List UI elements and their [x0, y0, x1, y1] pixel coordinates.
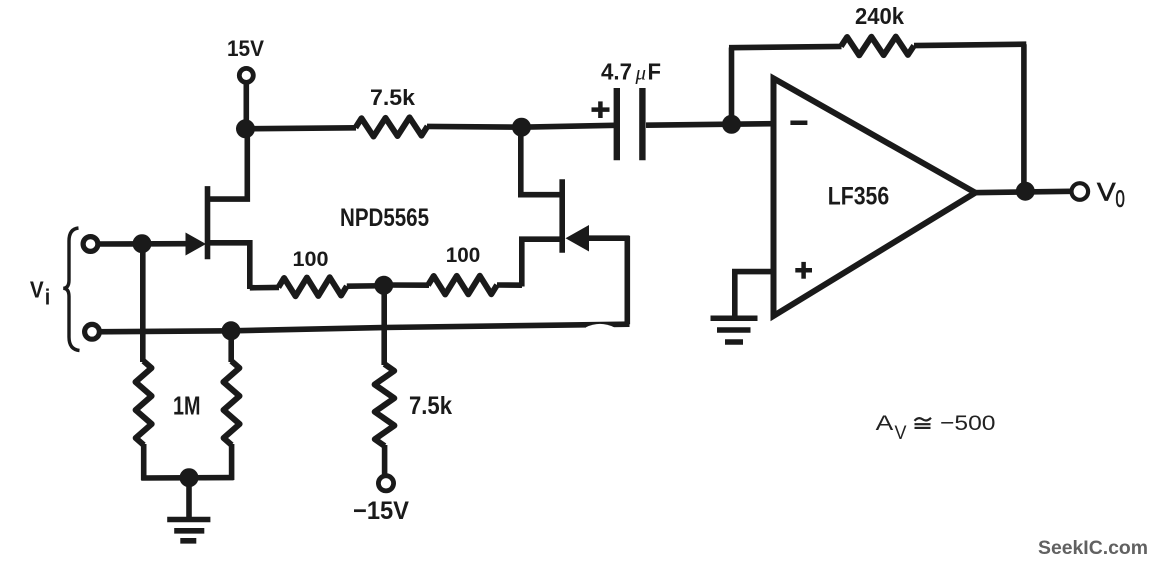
svg-text:100: 100: [293, 248, 329, 271]
svg-text:0: 0: [1115, 186, 1125, 213]
svg-text:NPD5565: NPD5565: [340, 205, 429, 232]
svg-text:A: A: [876, 411, 894, 435]
svg-text:μ: μ: [635, 61, 647, 85]
svg-text:V: V: [30, 277, 44, 303]
svg-text:F: F: [648, 59, 662, 85]
svg-text:4.7: 4.7: [601, 59, 632, 85]
svg-text:−15V: −15V: [353, 497, 409, 525]
svg-text:V: V: [1097, 179, 1116, 206]
svg-text:V: V: [895, 423, 907, 444]
svg-text:−500: −500: [940, 411, 996, 435]
svg-text:15V: 15V: [227, 36, 264, 61]
svg-text:1M: 1M: [173, 393, 201, 421]
svg-text:7.5k: 7.5k: [409, 392, 452, 420]
svg-text:SeekIC.com: SeekIC.com: [1038, 538, 1148, 559]
svg-text:7.5k: 7.5k: [370, 85, 416, 110]
svg-text:i: i: [45, 284, 51, 309]
svg-text:240k: 240k: [855, 3, 905, 29]
svg-text:100: 100: [446, 244, 481, 267]
svg-text:LF356: LF356: [828, 183, 889, 210]
